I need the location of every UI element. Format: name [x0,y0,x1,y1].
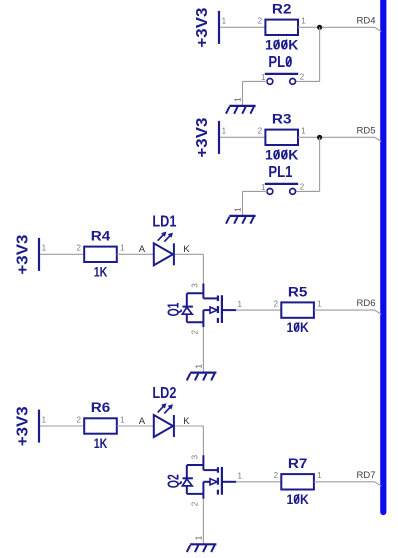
LED LD2 [154,415,174,437]
wire Q1 source to ground [202,327,204,373]
value 1K of R6 [94,436,108,451]
svg-text:Q2: Q2 [165,474,182,488]
pin 1 label of R4 [120,244,125,253]
svg-text:RD7: RD7 [357,470,376,481]
svg-text:1: 1 [234,207,243,212]
wire R5 to bus [314,309,375,311]
pin name A (anode) of LD2 [139,416,146,427]
svg-text:Q1: Q1 [165,302,182,316]
svg-text:R7: R7 [288,456,308,471]
svg-text:1: 1 [237,472,242,481]
pin 1 of +3V3 R6-rail [42,415,47,424]
svg-text:1: 1 [42,244,47,253]
wire bus entry RD7 [375,482,382,486]
svg-text:+3V3: +3V3 [194,117,211,157]
svg-text:2: 2 [190,330,199,335]
svg-text:100K: 100K [265,37,299,52]
wire +3V3 to R6 [40,425,84,427]
pin 1 label of GND2 [234,207,243,212]
wire R3 to node RD5 [298,136,375,138]
pin name A (anode) of LD1 [139,244,146,255]
svg-text:A: A [139,416,146,427]
svg-text:1: 1 [222,127,227,136]
net label RD5 [357,125,376,136]
value 100K of R2 [265,37,299,52]
svg-text:K: K [183,244,190,255]
resistor R2 [265,20,298,35]
svg-text:2: 2 [76,415,81,424]
svg-text:PL1: PL1 [268,164,292,181]
pin 2 label of PL0 [300,73,305,82]
wire LD1 cathode to Q1 drain [175,254,203,283]
pin 2 label of R7 [274,471,279,480]
pin name K (cathode) of LD2 [183,416,190,427]
wire node RD4 down to PL0 [319,27,321,81]
wire PL0 pin 1 to ground [243,81,268,106]
pin 3 label of Q1 [190,283,199,288]
svg-text:1: 1 [120,244,125,253]
svg-text:10K: 10K [286,320,309,335]
label R2 [272,2,292,17]
ground symbol GND3 [187,373,217,381]
svg-text:LD2: LD2 [152,385,176,402]
wire Q1 gate to R5 [236,309,281,311]
value 100K of R3 [265,147,299,162]
svg-text:R5: R5 [288,284,308,299]
pin 1 label of Q2 [237,472,242,481]
svg-text:2: 2 [258,127,263,136]
resistor R5 [281,302,314,317]
svg-text:1K: 1K [94,436,108,451]
ground symbol GND4 [187,544,217,552]
value 10K of R5 [286,320,309,335]
svg-text:R3: R3 [272,112,292,127]
pin 1 of +3V3 R3-rail [222,127,227,136]
pin 1 label of GND1 [234,97,243,102]
pin 2 label of R3 [258,127,263,136]
pin 3 label of Q2 [190,454,199,459]
pin 1 label of GND3 [194,364,203,369]
pin 2 label of Q2 [190,501,199,506]
svg-text:A: A [139,244,146,255]
wire bus entry RD6 [375,310,382,314]
power +3V3 supply symbol (R3-rail) [194,117,219,157]
svg-text:2: 2 [76,244,81,253]
svg-text:+3V3: +3V3 [194,7,211,47]
svg-text:1: 1 [301,127,306,136]
svg-text:2: 2 [300,73,305,82]
pin 1 label of GND4 [194,535,203,540]
svg-text:2: 2 [258,17,263,26]
svg-text:2: 2 [190,501,199,506]
svg-text:1: 1 [194,535,203,540]
svg-text:100K: 100K [265,147,299,162]
resistor R7 [281,474,314,489]
transistor Q1 N-MOSFET with body diode [182,284,236,328]
pin 1 label of Q1 [237,300,242,309]
value 10K of R7 [286,492,309,507]
svg-text:RD6: RD6 [357,298,376,309]
ground symbol GND1 [226,106,256,114]
pin 1 of +3V3 R4-rail [42,244,47,253]
pin 2 label of R5 [274,300,279,309]
svg-text:+3V3: +3V3 [15,406,32,446]
pushbutton PL0 [265,74,298,84]
pin 1 label of R3 [301,127,306,136]
pushbutton PL1 [265,184,298,194]
svg-text:RD5: RD5 [357,125,376,136]
pin 2 label of Q1 [190,330,199,335]
label PL0 [268,54,292,71]
net label RD4 [357,15,376,26]
wire R4 to LD1 anode [117,253,154,255]
pin 1 label of PL1 [261,183,266,192]
bus RD[4..7] vertical [380,0,386,512]
label LD2 [152,385,176,402]
pin 1 of +3V3 R2-rail [222,17,227,26]
label Q2 [165,474,182,488]
svg-text:1: 1 [317,300,322,309]
power +3V3 supply symbol (R2-rail) [194,7,219,47]
resistor R3 [265,130,298,145]
svg-text:2: 2 [300,183,305,192]
svg-text:1K: 1K [94,264,108,279]
svg-text:R4: R4 [91,229,111,244]
svg-text:10K: 10K [286,492,309,507]
power +3V3 supply symbol (R6-rail) [15,406,39,446]
wire PL1 pin 1 to ground [243,191,268,216]
pin 2 label of PL1 [300,183,305,192]
light arrows of LD1 [158,232,173,242]
svg-text:1: 1 [237,300,242,309]
label R7 [288,456,308,471]
pin 2 label of R2 [258,17,263,26]
svg-text:LD1: LD1 [152,213,176,230]
label R4 [91,229,111,244]
power +3V3 supply symbol (R4-rail) [15,234,39,274]
net label RD6 [357,298,376,309]
net label RD7 [357,470,376,481]
pin 2 label of R6 [76,415,81,424]
wire node RD5 down to PL1 [319,137,321,191]
svg-text:RD4: RD4 [357,15,376,26]
svg-text:3: 3 [190,283,199,288]
LED LD1 [154,243,174,265]
pin 2 label of R4 [76,244,81,253]
value 1K of R4 [94,264,108,279]
svg-text:1: 1 [301,17,306,26]
pin 1 label of R5 [317,300,322,309]
pin name K (cathode) of LD1 [183,244,190,255]
svg-text:1: 1 [317,471,322,480]
wire +3V3 to R3 [220,136,265,138]
svg-text:1: 1 [194,364,203,369]
svg-text:1: 1 [42,415,47,424]
label Q1 [165,302,182,316]
wire bus entry RD4 [375,27,382,31]
pin 1 label of PL0 [261,73,266,82]
wire +3V3 to R2 [220,26,265,28]
transistor Q2 N-MOSFET with body diode [182,455,236,499]
svg-text:2: 2 [274,471,279,480]
wire to PL1 pin 2 [295,190,320,192]
wire to PL0 pin 2 [295,80,320,82]
light arrows of LD2 [158,403,173,413]
wire R7 to bus [314,481,375,483]
wire bus entry RD5 [375,137,382,141]
ground symbol GND2 [226,216,256,224]
svg-text:1: 1 [234,97,243,102]
svg-text:1: 1 [120,415,125,424]
pin 1 label of R7 [317,471,322,480]
svg-text:1: 1 [222,17,227,26]
wire Q2 gate to R7 [236,481,281,483]
label PL1 [268,164,292,181]
wire R6 to LD2 anode [117,425,154,427]
svg-text:3: 3 [190,454,199,459]
svg-text:+3V3: +3V3 [15,234,32,274]
junction node RD5 [317,135,322,140]
wire LD2 cathode to Q2 drain [175,426,203,455]
svg-text:K: K [183,416,190,427]
svg-text:2: 2 [274,300,279,309]
svg-text:R2: R2 [272,2,292,17]
resistor R4 [84,247,117,262]
wire +3V3 to R4 [40,253,84,255]
pin 1 label of R2 [301,17,306,26]
junction node RD4 [317,25,322,30]
wire Q2 source to ground [202,499,204,545]
svg-text:R6: R6 [91,400,111,415]
label R5 [288,284,308,299]
label R6 [91,400,111,415]
label LD1 [152,213,176,230]
label R3 [272,112,292,127]
resistor R6 [84,418,117,433]
wire R2 to node RD4 [298,26,375,28]
pin 1 label of R6 [120,415,125,424]
